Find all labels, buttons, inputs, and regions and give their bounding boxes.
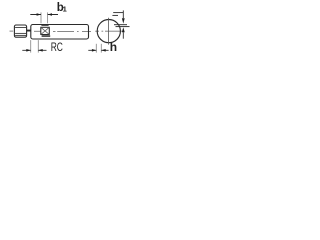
dimension b1: dimension line and arrows — [30, 14, 58, 16]
pad serration lines — [15, 28, 26, 36]
dimension RC: dimension line and arrows — [22, 49, 46, 51]
flat extension line at circle top right (upper) — [114, 24, 127, 26]
dimension h: dimension line and arrows — [88, 49, 108, 51]
body (main cylinder side view) — [31, 25, 89, 40]
top-right dimension: lower arrow (up) with tail — [122, 27, 125, 32]
end view vertical centerline — [108, 18, 110, 45]
dimension RC: extension lines — [31, 40, 39, 53]
centerline (main axis, dash-dot) — [10, 30, 123, 32]
end view circle — [97, 20, 120, 43]
flat region thick top edge — [41, 24, 48, 26]
flat surface marker box with diagonals — [41, 27, 50, 34]
flat extension line at circle top right (lower) — [116, 26, 130, 28]
knurled pad (left piece) — [14, 25, 26, 37]
flat region thick bottom bar — [42, 35, 51, 37]
svg-text:1: 1 — [63, 4, 67, 13]
top-right dimension: leader lines — [113, 12, 123, 14]
top-right dimension: upper arrow (down) — [122, 10, 124, 18]
background — [0, 0, 140, 58]
svg-text:RC: RC — [51, 40, 63, 54]
dimension h: extension lines — [96, 44, 101, 53]
stem (neck between pad and body) — [27, 30, 31, 32]
svg-text:h: h — [110, 40, 117, 54]
dimension b1: extension lines — [41, 12, 48, 23]
